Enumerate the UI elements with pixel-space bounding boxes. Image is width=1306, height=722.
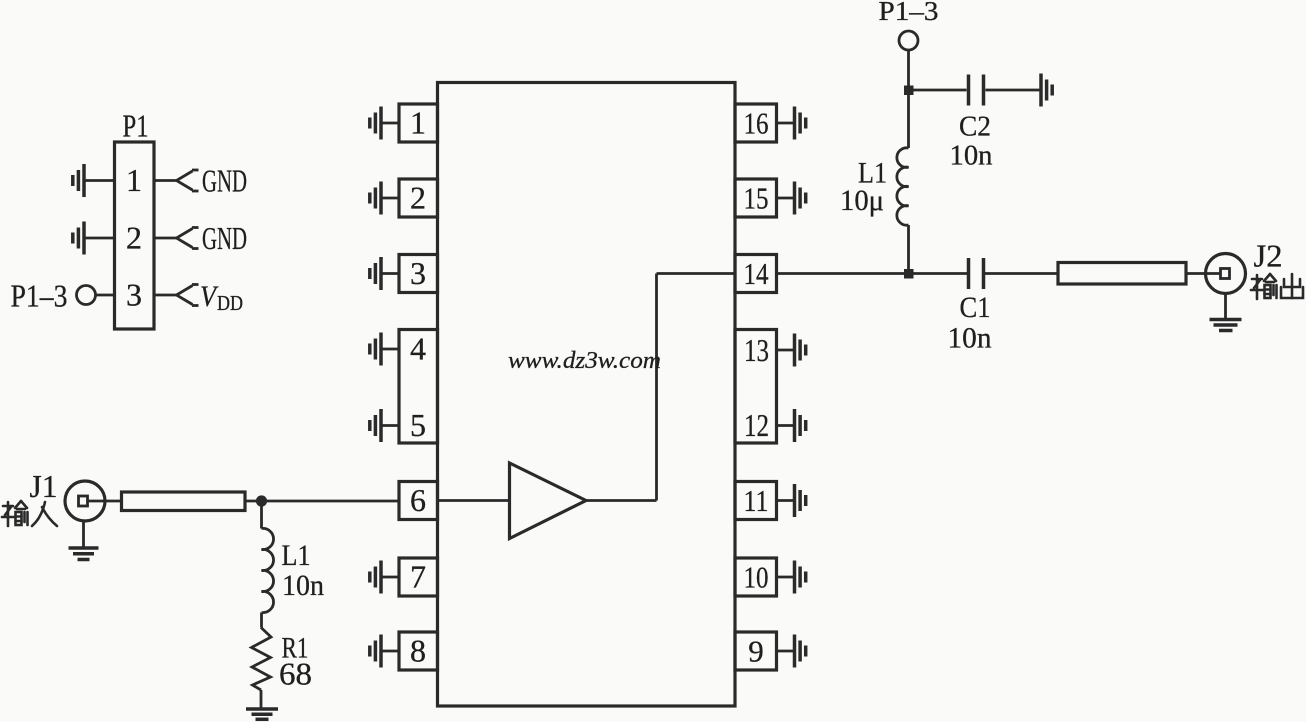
wire transmission line to pin6 bbox=[245, 500, 399, 503]
pin 11 box bbox=[735, 482, 777, 520]
svg-text:10μ: 10μ bbox=[840, 184, 884, 217]
wire L1 to R1 bbox=[260, 613, 263, 628]
svg-text:5: 5 bbox=[410, 407, 426, 443]
connector J2 bbox=[1206, 254, 1246, 294]
ground at J1 bbox=[69, 521, 99, 560]
ground at pin 11 bbox=[777, 484, 806, 517]
ground at pin 9 bbox=[777, 635, 806, 668]
pin 14 box bbox=[735, 255, 777, 293]
pin 9 box bbox=[735, 632, 777, 670]
ground at pin 13 bbox=[777, 334, 806, 367]
junction at pin14 net bbox=[904, 269, 914, 279]
svg-text:2: 2 bbox=[410, 180, 426, 216]
pin 16 box bbox=[735, 104, 777, 142]
pin 8 box bbox=[399, 632, 438, 670]
junction at C2 branch bbox=[904, 86, 914, 96]
pin 10 box bbox=[735, 558, 777, 596]
op-amp IC U1 body bbox=[438, 83, 736, 707]
svg-text:4: 4 bbox=[410, 331, 426, 367]
transmission line (output) bbox=[1058, 263, 1186, 285]
J1 input label (shu ru) bbox=[2, 501, 57, 526]
pin 2 box bbox=[399, 179, 438, 217]
wire transmission line to J2 bbox=[1186, 272, 1221, 275]
svg-text:9: 9 bbox=[748, 634, 764, 669]
svg-text:14: 14 bbox=[744, 256, 769, 291]
svg-text:www.dz3w.com: www.dz3w.com bbox=[508, 348, 661, 374]
ground at pin 3 bbox=[370, 257, 399, 290]
wire pin14 to C1 bbox=[777, 272, 968, 275]
ground at pin 5 bbox=[370, 409, 399, 442]
P1-3 terminal circle top bbox=[899, 31, 918, 50]
svg-text:P1–3: P1–3 bbox=[11, 278, 68, 314]
svg-text:1: 1 bbox=[126, 162, 142, 198]
svg-text:3: 3 bbox=[410, 255, 426, 291]
wire amplifier output to corner bbox=[586, 499, 657, 502]
wire pin6 to amplifier input bbox=[438, 499, 510, 502]
resistor R1 zigzag bbox=[252, 628, 272, 691]
wire L1 to pin14 net bbox=[907, 225, 910, 274]
ground at pin 12 bbox=[777, 409, 806, 442]
svg-text:DD: DD bbox=[217, 291, 243, 315]
pin 3 box bbox=[399, 255, 438, 293]
svg-text:P1: P1 bbox=[123, 108, 149, 144]
transmission line (input) bbox=[122, 492, 246, 511]
svg-text:11: 11 bbox=[744, 483, 769, 518]
wire junction to L1 bbox=[260, 501, 263, 529]
wire junction to C2 bbox=[909, 89, 967, 92]
svg-text:C2: C2 bbox=[959, 111, 991, 143]
wire C1 to transmission line bbox=[985, 272, 1058, 275]
svg-text:10n: 10n bbox=[282, 569, 324, 602]
wire P1-3 down bbox=[907, 50, 910, 148]
ground at R1 bbox=[246, 709, 278, 719]
ground at J2 bbox=[1210, 294, 1242, 331]
inductor L1 (10u) coil bbox=[897, 148, 909, 225]
ground at pin 4 bbox=[370, 333, 399, 366]
pin 7 box bbox=[399, 558, 438, 596]
op-amp amplifier triangle bbox=[510, 463, 587, 539]
wire vertical to pin14 row bbox=[655, 274, 658, 501]
pin 1 box bbox=[399, 104, 438, 142]
ground at pin 8 bbox=[370, 635, 399, 668]
svg-text:2: 2 bbox=[126, 220, 142, 256]
P1-3 terminal circle bbox=[77, 286, 115, 305]
ground at pin 7 bbox=[370, 561, 399, 594]
svg-text:C1: C1 bbox=[960, 291, 991, 324]
connector J1 bbox=[65, 481, 122, 521]
svg-text:10: 10 bbox=[744, 560, 769, 595]
ground at pin 2 bbox=[370, 182, 399, 215]
svg-text:GND: GND bbox=[202, 163, 247, 199]
capacitor C2 bbox=[969, 75, 984, 106]
svg-text:3: 3 bbox=[126, 277, 142, 313]
svg-text:10n: 10n bbox=[948, 322, 992, 355]
svg-text:13: 13 bbox=[744, 332, 769, 368]
ground at pin 15 bbox=[777, 182, 806, 215]
svg-text:1: 1 bbox=[410, 105, 426, 141]
svg-text:16: 16 bbox=[744, 106, 769, 141]
ground at pin 1 bbox=[370, 107, 399, 140]
svg-text:6: 6 bbox=[410, 482, 426, 518]
P1 pin2 arrow bbox=[154, 228, 199, 249]
svg-text:12: 12 bbox=[744, 407, 769, 443]
wire R1 to ground bbox=[260, 690, 263, 708]
svg-text:J1: J1 bbox=[30, 468, 58, 504]
ground at pin 10 bbox=[777, 561, 806, 594]
pin 13/12 box bbox=[735, 330, 777, 444]
svg-text:J2: J2 bbox=[1254, 238, 1283, 274]
pin 4/5 box bbox=[399, 330, 438, 444]
svg-text:8: 8 bbox=[410, 633, 426, 669]
ground at C2 bbox=[1041, 74, 1052, 107]
ground at pin 16 bbox=[777, 107, 806, 140]
J2 output label (shu chu) bbox=[1251, 274, 1303, 299]
ground at P1 pin 1 bbox=[73, 164, 115, 197]
connector P1 box bbox=[115, 142, 155, 329]
P1 pin1 arrow bbox=[154, 170, 199, 191]
inductor L1 (10n) coil bbox=[262, 528, 274, 612]
svg-text:10n: 10n bbox=[950, 140, 993, 172]
P1 pin3 arrow bbox=[154, 285, 199, 306]
wire to pin 14 bbox=[657, 272, 736, 275]
pin 6 box bbox=[399, 482, 438, 520]
pin 15 box bbox=[735, 179, 777, 217]
capacitor C1 bbox=[969, 258, 984, 289]
svg-text:P1–3: P1–3 bbox=[879, 0, 939, 26]
wire C2 to ground bbox=[986, 89, 1041, 92]
svg-text:GND: GND bbox=[202, 220, 247, 256]
svg-text:7: 7 bbox=[410, 559, 426, 595]
svg-text:15: 15 bbox=[744, 181, 769, 216]
svg-text:68: 68 bbox=[279, 656, 312, 692]
junction at L1 branch bbox=[256, 495, 267, 506]
svg-text:L1: L1 bbox=[282, 539, 311, 572]
ground at P1 pin 2 bbox=[73, 222, 115, 255]
VDD label pin3 bbox=[200, 280, 243, 315]
